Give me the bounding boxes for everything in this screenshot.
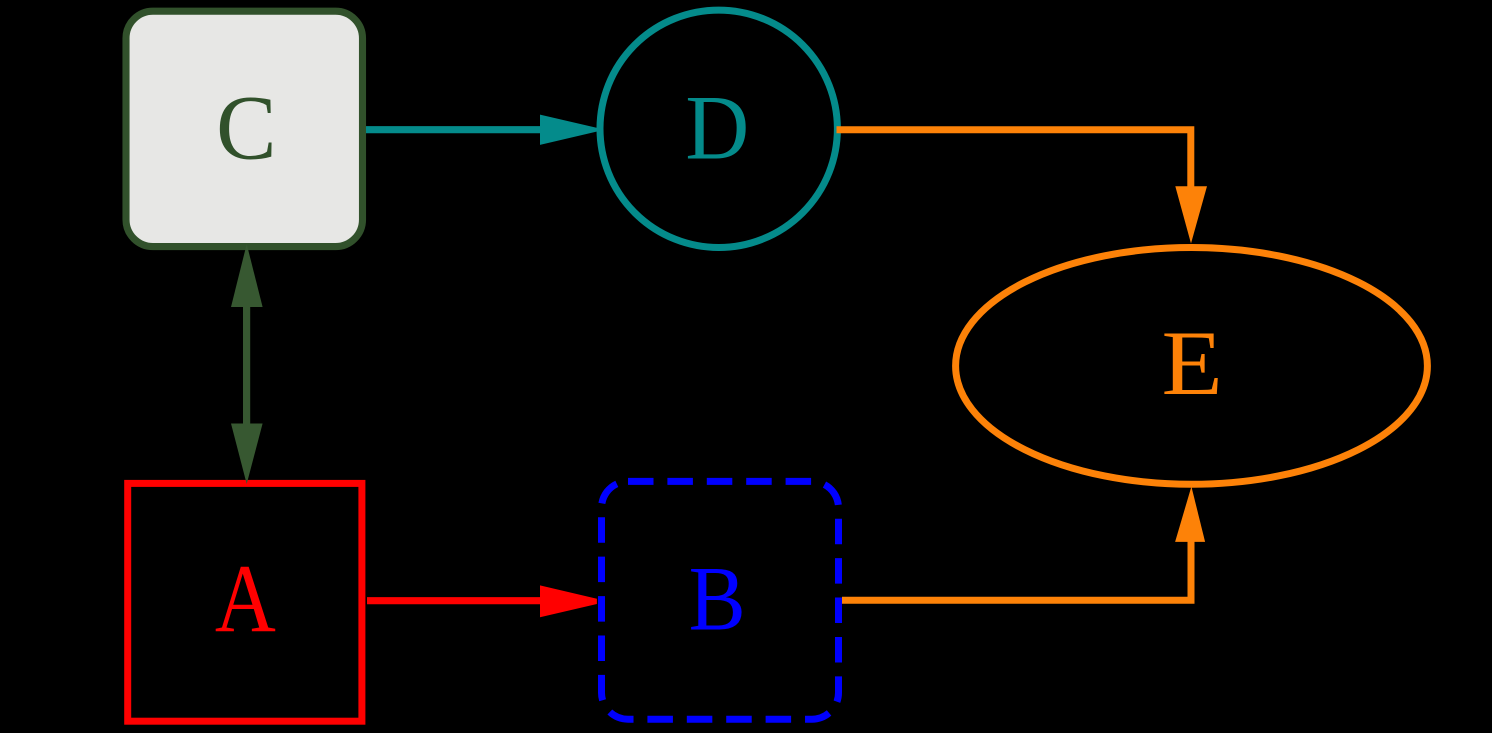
node D (circle) [600, 10, 837, 247]
double arrow C to A (dark green, drawn over A border) [231, 244, 263, 484]
svg-text:D: D [685, 77, 749, 179]
arrow A to B (red) [367, 585, 597, 617]
svg-text:B: B [689, 549, 746, 650]
svg-text:C: C [216, 77, 276, 179]
svg-text:E: E [1161, 312, 1222, 414]
node C (rounded square) [126, 11, 363, 246]
arrow C to D (teal) [366, 115, 598, 145]
node A (square) [128, 483, 362, 721]
elbow arrow B to E (orange) [842, 487, 1205, 601]
node B (dashed rounded square) [602, 481, 839, 719]
elbow arrow D to E (orange) [837, 130, 1208, 244]
svg-text:A: A [215, 545, 276, 653]
node E (ellipse) [956, 248, 1428, 485]
